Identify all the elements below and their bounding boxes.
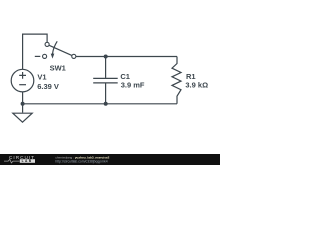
footer logo waveform: [4, 159, 20, 163]
svg-text:3.9 mF: 3.9 mF: [121, 80, 145, 89]
svg-text:http://circuitlab.com/c338jbqq: http://circuitlab.com/c338jbqqpmk4: [55, 159, 107, 163]
svg-text:6.39 V: 6.39 V: [37, 82, 59, 91]
switch SW1 toggle arrow: [53, 41, 58, 54]
switch SW1 arrowhead: [51, 54, 55, 59]
capacitor C1 plates: [93, 77, 118, 79]
wire V1 bottom: [22, 92, 24, 104]
ground symbol: [13, 113, 32, 122]
wire bottom rail: [23, 103, 177, 105]
voltage source V1: [11, 69, 34, 92]
node junction dot bottom: [104, 102, 108, 106]
wire C1 top: [105, 57, 107, 78]
wire V1 top to switch throw: [23, 34, 47, 69]
switch SW1 terminal top throw: [45, 42, 49, 46]
footer logo LAB box: [20, 159, 35, 163]
switch SW1 blade: [49, 45, 72, 55]
footer bar: [0, 154, 220, 165]
switch SW1 terminal pole: [72, 54, 76, 58]
wire ground stub: [22, 104, 24, 113]
wire C1 bottom: [105, 83, 107, 103]
node junction dot ground: [21, 102, 25, 106]
svg-text:SW1: SW1: [50, 63, 66, 72]
svg-text:LAB: LAB: [22, 159, 33, 163]
svg-text:V1: V1: [37, 72, 46, 81]
resistor R1: [172, 57, 181, 104]
svg-text:3.9 kΩ: 3.9 kΩ: [185, 81, 208, 90]
wire SW1 open throw stub: [35, 55, 41, 57]
node junction dot top: [104, 55, 108, 59]
wire top rail: [76, 56, 177, 58]
switch SW1 terminal open throw: [43, 54, 47, 58]
